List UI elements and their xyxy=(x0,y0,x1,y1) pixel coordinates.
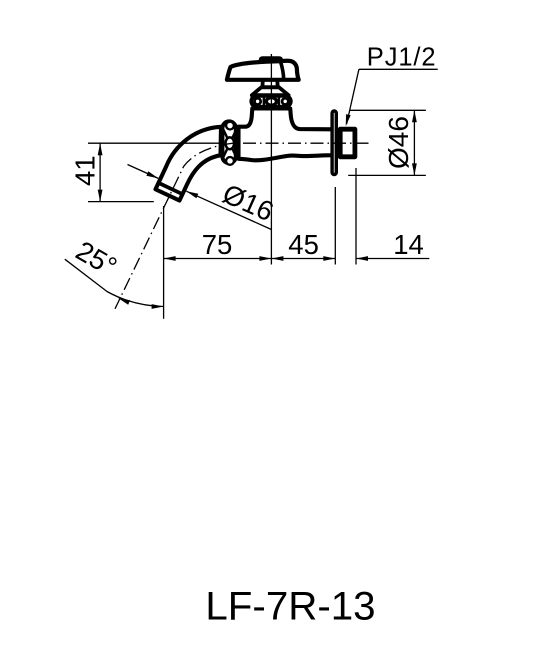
angle arc 25deg xyxy=(65,259,164,306)
nut center ellipse xyxy=(266,98,276,106)
nut right circle xyxy=(282,98,288,104)
arrow Ø16 upper xyxy=(146,171,158,178)
ring bottom circle xyxy=(226,157,234,165)
arrow 41 down xyxy=(98,190,103,202)
arrow 45 right xyxy=(323,256,335,261)
bonnet bell skirt xyxy=(252,87,289,95)
thin lines xyxy=(65,54,438,319)
svg-text:45: 45 xyxy=(288,229,319,260)
dimension line 75-45 xyxy=(164,258,336,260)
extension line pipe end xyxy=(355,168,357,265)
spout tip band xyxy=(159,183,183,194)
svg-text:14: 14 xyxy=(393,229,424,260)
bonnet bell + stem xyxy=(262,78,277,87)
threaded pipe end PJ1/2 xyxy=(340,129,355,157)
arrow arc left xyxy=(118,298,130,305)
arrow 75 right xyxy=(259,256,271,261)
Ø46 dimension line xyxy=(413,110,415,175)
arrow 45 left xyxy=(271,256,283,261)
nut bars xyxy=(264,97,279,106)
handle inner arc xyxy=(280,61,283,79)
PJ1/2 underline xyxy=(359,68,438,70)
arrow 41 up xyxy=(98,143,103,155)
dimension line 14 xyxy=(356,258,429,260)
packing nut (stadium) xyxy=(251,96,290,107)
wall flange xyxy=(332,111,336,175)
PJ1/2 leader xyxy=(347,69,359,124)
handle wheel xyxy=(227,61,299,80)
extension line at spout tip vertical xyxy=(163,206,165,319)
arrow PJ leader xyxy=(346,114,351,126)
svg-text:41: 41 xyxy=(69,155,100,186)
arrow 75 left xyxy=(164,256,176,261)
ring X diagonals xyxy=(224,130,236,156)
arrow arc right xyxy=(152,304,164,309)
horizontal axis solid left xyxy=(88,142,219,144)
Ø46 extension top xyxy=(350,109,426,111)
arrow Ø46 down xyxy=(412,163,417,175)
svg-text:75: 75 xyxy=(202,229,233,260)
dimension line 41 xyxy=(99,143,101,201)
arrow 14 xyxy=(356,256,368,261)
svg-text:PJ1/2: PJ1/2 xyxy=(367,44,437,72)
nut left circle xyxy=(255,98,261,104)
horizontal axis dash-dot xyxy=(243,142,369,144)
extension line flange xyxy=(334,187,336,265)
arrowheads xyxy=(98,110,417,309)
arrow Ø46 up xyxy=(412,110,417,122)
faucet spout tube xyxy=(156,127,222,201)
vertical centerline xyxy=(270,54,272,265)
handle top cap xyxy=(259,57,283,63)
extension 41 bottom xyxy=(88,201,154,203)
svg-text:Ø46: Ø46 xyxy=(383,116,414,169)
svg-text:LF-7R-13: LF-7R-13 xyxy=(205,584,375,629)
Ø46 extension bottom xyxy=(348,174,426,176)
Ø16 lower leader xyxy=(186,191,271,229)
Ø16 upper leader xyxy=(128,165,159,179)
arrow Ø16 lower xyxy=(186,191,198,198)
faucet body (horizontal) xyxy=(239,109,334,161)
ring center ellipse xyxy=(226,137,235,149)
union ring at spout joint xyxy=(222,121,235,163)
spout axis dash-dot xyxy=(115,143,233,309)
ring top circle xyxy=(226,122,234,130)
